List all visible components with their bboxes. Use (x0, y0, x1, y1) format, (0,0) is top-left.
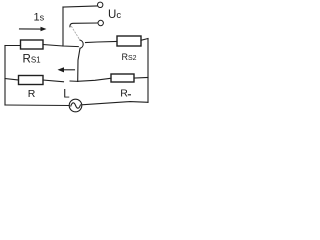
svg-text:R: R (120, 88, 128, 100)
node A: junction of top rail and upper-terminal branch (62, 7, 64, 46)
wire: right border to RS2 (141, 39, 148, 41)
resistor R' (111, 74, 134, 82)
wire: middle node to RL (78, 78, 111, 81)
wire: bottom rail left (5, 104, 69, 107)
svg-text:R: R (28, 88, 36, 100)
terminal: lower output (open circle) (98, 20, 103, 25)
sine symbol inside source (71, 103, 81, 108)
wire: crossover down to middle node (78, 48, 80, 81)
wire: R to middle node (43, 80, 64, 82)
source U (AC sine source) (69, 99, 82, 112)
svg-text:L: L (63, 89, 70, 101)
wire: middle rail from left border to R (5, 79, 19, 81)
svg-text:RS1: RS1 (23, 54, 42, 66)
wire: right border (147, 39, 149, 103)
wire: RS1 to crossover gap (43, 45, 78, 47)
wire: middle rail faded piece (70, 80, 78, 82)
svg-text:1s: 1s (34, 12, 45, 24)
wire: faint branch from lower terminal to crossover (72, 27, 80, 40)
current arrow IS (top, pointing right) (20, 28, 42, 30)
wire: lower terminal lead (70, 23, 98, 27)
current arrow at middle node (pointing left) (63, 69, 75, 71)
svg-text:RS2: RS2 (122, 52, 137, 62)
resistor R (19, 76, 44, 85)
wire: bottom rail right (82, 102, 148, 105)
crossover hop (wire jump over top rail) (80, 40, 83, 48)
resistor RS1 (21, 40, 44, 49)
wire: RS2 to hop (86, 42, 118, 43)
label R' subscript dash (128, 94, 131, 96)
svg-text:Uc: Uc (108, 9, 121, 21)
wire: left border (4, 46, 6, 106)
wire: top rail left (5, 45, 21, 47)
wire: R' to right border (134, 77, 148, 80)
wire: to upper terminal (63, 6, 97, 7)
resistor RS2 (117, 36, 141, 46)
terminal: upper output (open circle) (98, 2, 103, 7)
